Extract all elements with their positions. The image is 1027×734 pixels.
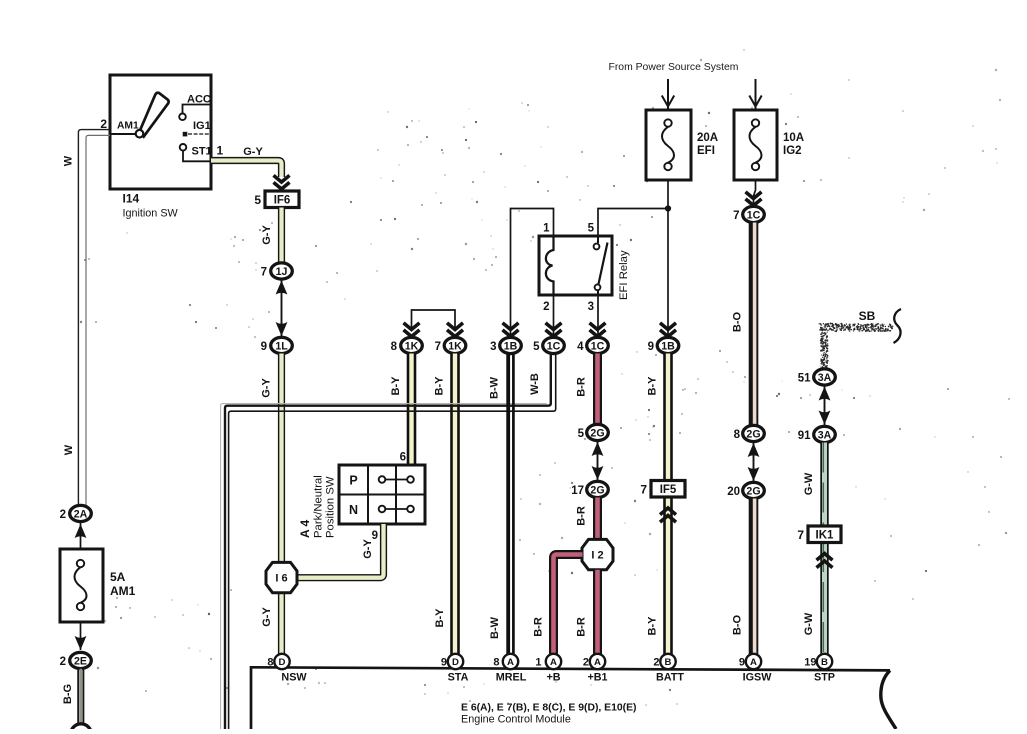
wire relay pin 1 to 1B — [511, 209, 554, 339]
svg-text:1J: 1J — [276, 266, 288, 278]
wire G-Y IF6 to 1J — [278, 208, 285, 265]
svg-text:B: B — [821, 657, 828, 668]
svg-text:AM1: AM1 — [117, 121, 139, 132]
fuse 10A IG2 — [734, 110, 777, 180]
label A4 Park/Neutral Position SW — [298, 475, 337, 538]
svg-text:5: 5 — [588, 223, 595, 235]
svg-text:IG1: IG1 — [193, 120, 211, 132]
svg-text:MREL: MREL — [496, 672, 527, 684]
connector 1B pin 9 — [648, 337, 679, 353]
wire G-W IK1 to STP — [823, 542, 824, 655]
svg-text:NSW: NSW — [281, 672, 307, 684]
connector 1C pin 5 — [533, 337, 564, 353]
svg-text:2G: 2G — [746, 485, 760, 497]
svg-text:+B: +B — [546, 672, 560, 684]
connector 2E pin 2 — [60, 652, 92, 668]
ECM pin IGSW — [739, 654, 761, 669]
svg-text:ST1: ST1 — [192, 146, 212, 158]
ignition switch lever — [139, 93, 168, 137]
svg-text:B-R: B-R — [576, 617, 588, 637]
svg-text:I14: I14 — [123, 192, 140, 206]
fuse 5A AM1 — [60, 549, 103, 622]
wire AM1 stub — [110, 133, 136, 135]
svg-text:1K: 1K — [448, 340, 462, 352]
wire B-R 2G to I2 — [593, 498, 602, 542]
arrow into 1B a — [503, 323, 519, 337]
svg-text:G-Y: G-Y — [362, 539, 374, 559]
wire W from AM1 pin 2 — [78, 130, 110, 506]
svg-text:Park/Neutral: Park/Neutral — [313, 475, 325, 538]
junction IF5 — [640, 481, 685, 498]
svg-text:7: 7 — [261, 266, 267, 278]
ECM pin +B — [535, 654, 561, 669]
svg-text:7: 7 — [435, 341, 441, 353]
wire relay pin 5 to EFI fuse — [598, 209, 668, 237]
svg-text:3: 3 — [588, 301, 594, 313]
svg-text:A: A — [594, 657, 601, 668]
wire B-O 2G to IGSW — [754, 499, 755, 655]
ECM pin +B1 — [583, 654, 605, 669]
ECM box outline — [251, 667, 896, 729]
relay switch — [594, 236, 608, 295]
arrow into 1C b — [590, 323, 606, 337]
connector 2G pin 8 — [734, 425, 765, 441]
ECM pin NSW — [267, 654, 289, 669]
arrow into 2A — [75, 524, 87, 538]
arrow into 1C ig2 — [746, 192, 762, 206]
svg-text:AM1: AM1 — [110, 584, 136, 598]
svg-text:2G: 2G — [590, 427, 604, 439]
svg-text:E 6(A), E 7(B), E 8(C), E 9(D): E 6(A), E 7(B), E 8(C), E 9(D), E10(E) — [461, 703, 637, 714]
svg-text:A: A — [507, 657, 514, 668]
svg-text:G-Y: G-Y — [261, 378, 273, 398]
connector join 1J to 1L — [276, 280, 288, 338]
svg-text:1C: 1C — [591, 340, 605, 352]
wire B-G — [78, 669, 83, 724]
svg-text:1K: 1K — [405, 340, 419, 352]
connector 1J pin 7 — [261, 263, 293, 279]
junction dot EFI feed — [665, 205, 671, 211]
svg-text:2: 2 — [60, 656, 66, 668]
svg-text:B: B — [665, 657, 672, 668]
wire B-Y 1B to IF5 — [663, 354, 673, 482]
svg-text:17: 17 — [571, 485, 584, 497]
relay coil — [546, 236, 554, 295]
svg-text:8: 8 — [267, 657, 273, 669]
svg-text:A 4: A 4 — [298, 519, 312, 538]
svg-text:G-W: G-W — [803, 472, 815, 495]
svg-text:9: 9 — [648, 341, 654, 353]
svg-text:SB: SB — [859, 309, 876, 323]
ECM pin MREL — [493, 654, 518, 669]
svg-text:2: 2 — [653, 657, 659, 669]
svg-text:6: 6 — [400, 452, 406, 464]
svg-text:1B: 1B — [504, 340, 518, 352]
svg-text:Engine Control Module: Engine Control Module — [461, 714, 571, 726]
svg-text:B-O: B-O — [732, 311, 744, 332]
junction IK1 — [797, 526, 841, 543]
connector 1K pin 8 — [391, 337, 423, 353]
connector 1K pin 7 — [435, 337, 466, 353]
connector 2A pin 2 — [60, 505, 92, 521]
arrow into 1K b — [447, 323, 463, 337]
ACC contact and wire — [179, 105, 211, 121]
svg-text:I 2: I 2 — [591, 550, 603, 562]
svg-text:G-Y: G-Y — [261, 607, 273, 627]
svg-text:8: 8 — [734, 429, 741, 441]
wire SB stipple horizontal — [819, 323, 894, 371]
IG1 contact and wire — [183, 132, 211, 137]
connector 3A pin 51 — [798, 369, 836, 385]
wire B-Y 1K to STA — [450, 354, 460, 655]
arrow into 1B b — [660, 323, 676, 337]
svg-text:B-Y: B-Y — [434, 608, 446, 628]
connector 1C pin 7 — [733, 206, 764, 222]
svg-text:IGSW: IGSW — [743, 672, 773, 684]
arrow into 2E — [75, 636, 87, 650]
svg-text:5: 5 — [254, 193, 261, 207]
svg-text:1: 1 — [217, 144, 224, 158]
svg-text:IK1: IK1 — [816, 530, 835, 542]
svg-text:1C: 1C — [547, 340, 561, 352]
wire B-Y 1K to park/neutral sw — [407, 354, 417, 466]
svg-text:B-R: B-R — [576, 506, 588, 526]
svg-text:B-G: B-G — [62, 684, 74, 704]
connector 1C pin 4 — [577, 337, 608, 353]
P contacts — [379, 476, 414, 483]
svg-text:+B1: +B1 — [587, 672, 607, 684]
ECM pin STA — [441, 654, 463, 669]
svg-text:7: 7 — [640, 483, 647, 497]
wire G-Y from ST1 — [211, 161, 282, 178]
svg-text:D: D — [279, 657, 286, 668]
svg-text:2: 2 — [100, 117, 107, 131]
connector join 2G pair igsw — [748, 442, 760, 482]
svg-text:IF6: IF6 — [274, 195, 291, 207]
svg-text:10A: 10A — [783, 132, 804, 144]
svg-text:2: 2 — [583, 657, 589, 669]
svg-text:B-Y: B-Y — [647, 376, 659, 396]
connector 2G pin 17 — [571, 481, 608, 497]
svg-text:8: 8 — [391, 341, 398, 353]
svg-text:B-Y: B-Y — [647, 616, 659, 636]
svg-text:2: 2 — [60, 509, 66, 521]
arrow into IF5 — [660, 508, 676, 522]
junction connector I2 — [582, 539, 613, 569]
svg-text:B-W: B-W — [489, 376, 501, 399]
svg-text:3: 3 — [490, 341, 496, 353]
connector 2G pin 5 — [578, 424, 609, 440]
svg-text:B-R: B-R — [576, 377, 588, 397]
svg-text:4: 4 — [577, 341, 584, 353]
ignition switch I14 box — [110, 75, 211, 189]
svg-text:EFI Relay: EFI Relay — [618, 250, 630, 300]
fuse 20A EFI — [646, 110, 691, 180]
junction IF6 — [254, 191, 299, 208]
svg-text:G-Y: G-Y — [243, 146, 263, 158]
svg-text:W: W — [63, 444, 75, 455]
wire B-R I2 to +B — [554, 555, 583, 655]
wire G-Y 1L to NSW — [278, 354, 285, 655]
arrow into 1C a — [546, 323, 562, 337]
wire B-O 1C to 2G — [754, 223, 755, 427]
wire B-R 1C to 2G — [593, 354, 602, 426]
svg-text:20A: 20A — [697, 132, 718, 144]
ST1 contact and wire — [180, 144, 211, 161]
svg-text:7: 7 — [797, 528, 804, 542]
connector join 3A pair — [819, 386, 831, 426]
svg-text:7: 7 — [733, 210, 739, 222]
wire relay pin 3 to 1C — [597, 295, 600, 338]
svg-text:2A: 2A — [74, 508, 88, 520]
svg-text:IG2: IG2 — [783, 145, 802, 157]
wire IG2 fuse to 1C — [754, 180, 756, 207]
svg-text:1B: 1B — [661, 340, 675, 352]
wire B-W 1B to MREL — [508, 354, 513, 655]
svg-text:2G: 2G — [590, 484, 604, 496]
feed arrow IG2 — [749, 79, 761, 110]
connector circle 1 bottom — [71, 724, 91, 734]
wire W-B 1C to bottom left — [221, 354, 556, 730]
svg-text:B-W: B-W — [489, 616, 501, 639]
connector 3A pin 91 — [798, 426, 836, 442]
svg-text:W-B: W-B — [529, 373, 541, 395]
svg-text:B-R: B-R — [533, 617, 545, 637]
svg-text:1: 1 — [535, 657, 541, 669]
svg-text:B-Y: B-Y — [390, 376, 402, 396]
svg-text:IF5: IF5 — [660, 484, 677, 496]
wire B-R I2 to +B1 — [593, 570, 602, 655]
arrow into 1K a — [404, 323, 420, 337]
harness break squiggle — [894, 309, 902, 343]
wire into fuse AM1 — [80, 522, 82, 560]
svg-text:3A: 3A — [818, 429, 832, 441]
svg-text:W: W — [63, 155, 75, 166]
svg-text:STP: STP — [814, 672, 835, 684]
svg-text:G-Y: G-Y — [261, 225, 273, 245]
connector 1L pin 9 — [261, 337, 293, 353]
svg-text:Ignition SW: Ignition SW — [123, 208, 179, 220]
svg-text:5: 5 — [533, 341, 540, 353]
svg-text:8: 8 — [493, 657, 499, 669]
svg-text:1C: 1C — [747, 209, 761, 221]
svg-text:2E: 2E — [74, 655, 87, 667]
ECM pin STP — [804, 654, 832, 669]
arrow into IK1 — [817, 554, 833, 568]
connector join 2G to 2G — [592, 441, 604, 481]
svg-text:5: 5 — [578, 428, 585, 440]
wire EFI fuse down to 1B — [667, 180, 669, 338]
arrow into IF6 — [274, 175, 290, 189]
svg-text:1L: 1L — [275, 340, 288, 352]
feed arrow EFI — [662, 79, 674, 110]
svg-text:9: 9 — [441, 657, 447, 669]
svg-text:5A: 5A — [110, 570, 126, 584]
park/neutral position switch A4 box — [339, 465, 425, 524]
wire B-Y IF5 to BATT — [663, 497, 673, 655]
N contacts — [379, 506, 414, 513]
svg-text:3A: 3A — [818, 372, 832, 384]
EFI relay box — [539, 236, 612, 295]
svg-text:N: N — [349, 503, 358, 517]
wire G-W 3A to IK1 — [823, 443, 824, 527]
connector 1B pin 3 — [490, 337, 521, 353]
junction connector I6 — [266, 562, 297, 592]
svg-text:9: 9 — [739, 657, 745, 669]
svg-text:19: 19 — [804, 657, 816, 669]
svg-text:P: P — [349, 474, 357, 488]
wire relay pin 2 to 1C — [553, 295, 555, 338]
ignition switch pivot contact — [136, 130, 144, 138]
svg-text:STA: STA — [448, 672, 469, 684]
svg-text:From Power Source System: From Power Source System — [609, 62, 739, 73]
svg-text:51: 51 — [798, 372, 811, 384]
ECM pin BATT — [653, 654, 675, 669]
svg-text:2: 2 — [543, 301, 549, 313]
svg-text:A: A — [750, 657, 757, 668]
svg-text:D: D — [452, 657, 459, 668]
svg-text:2G: 2G — [746, 428, 760, 440]
svg-text:BATT: BATT — [656, 672, 684, 684]
wire bridge 1K to 1K — [412, 310, 456, 330]
svg-text:I 6: I 6 — [275, 573, 287, 585]
svg-text:A: A — [550, 657, 557, 668]
svg-text:Position SW: Position SW — [325, 476, 337, 538]
wire fuse AM1 to 2E — [80, 622, 82, 650]
svg-text:1: 1 — [543, 223, 550, 235]
svg-text:9: 9 — [261, 341, 267, 353]
svg-text:20: 20 — [727, 486, 740, 498]
connector 2G pin 20 — [727, 482, 764, 498]
svg-text:B-Y: B-Y — [434, 376, 446, 396]
wire G-Y pin 9 to junction I6 — [296, 524, 384, 578]
svg-text:G-W: G-W — [803, 612, 815, 635]
svg-text:91: 91 — [798, 430, 811, 442]
svg-text:B-O: B-O — [732, 614, 744, 635]
svg-text:EFI: EFI — [697, 145, 715, 157]
